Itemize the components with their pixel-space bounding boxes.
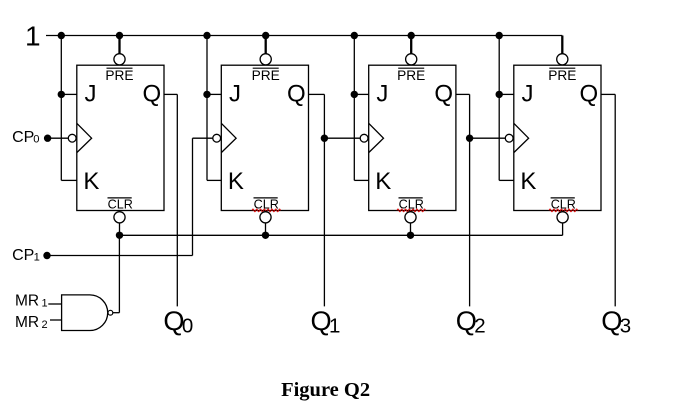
svg-text:1: 1 — [329, 315, 340, 338]
svg-text:K: K — [375, 168, 391, 195]
svg-text:0: 0 — [33, 134, 39, 146]
svg-text:CP: CP — [12, 247, 34, 264]
svg-text:1: 1 — [34, 252, 40, 264]
svg-text:Q: Q — [143, 81, 162, 108]
svg-text:K: K — [228, 168, 244, 195]
svg-text:2: 2 — [474, 315, 485, 338]
svg-text:PRE: PRE — [105, 68, 133, 83]
svg-text:PRE: PRE — [252, 68, 280, 83]
svg-text:J: J — [376, 81, 388, 108]
svg-text:1: 1 — [42, 298, 48, 310]
svg-text:1: 1 — [25, 21, 41, 52]
svg-text:PRE: PRE — [397, 68, 425, 83]
svg-text:K: K — [520, 168, 536, 195]
svg-text:PRE: PRE — [548, 68, 576, 83]
svg-text:MR: MR — [15, 314, 39, 331]
svg-text:2: 2 — [42, 319, 48, 331]
svg-text:J: J — [522, 81, 534, 108]
svg-text:3: 3 — [620, 315, 631, 338]
svg-text:CP: CP — [12, 129, 34, 146]
svg-text:J: J — [85, 81, 97, 108]
svg-text:Q: Q — [434, 81, 453, 108]
svg-text:J: J — [229, 81, 241, 108]
svg-text:MR: MR — [15, 293, 39, 310]
svg-text:Figure Q2: Figure Q2 — [281, 379, 370, 401]
svg-text:Q: Q — [580, 81, 599, 108]
svg-text:Q: Q — [287, 81, 306, 108]
svg-text:CLR: CLR — [108, 198, 133, 212]
svg-text:K: K — [83, 168, 99, 195]
svg-text:0: 0 — [182, 315, 193, 338]
